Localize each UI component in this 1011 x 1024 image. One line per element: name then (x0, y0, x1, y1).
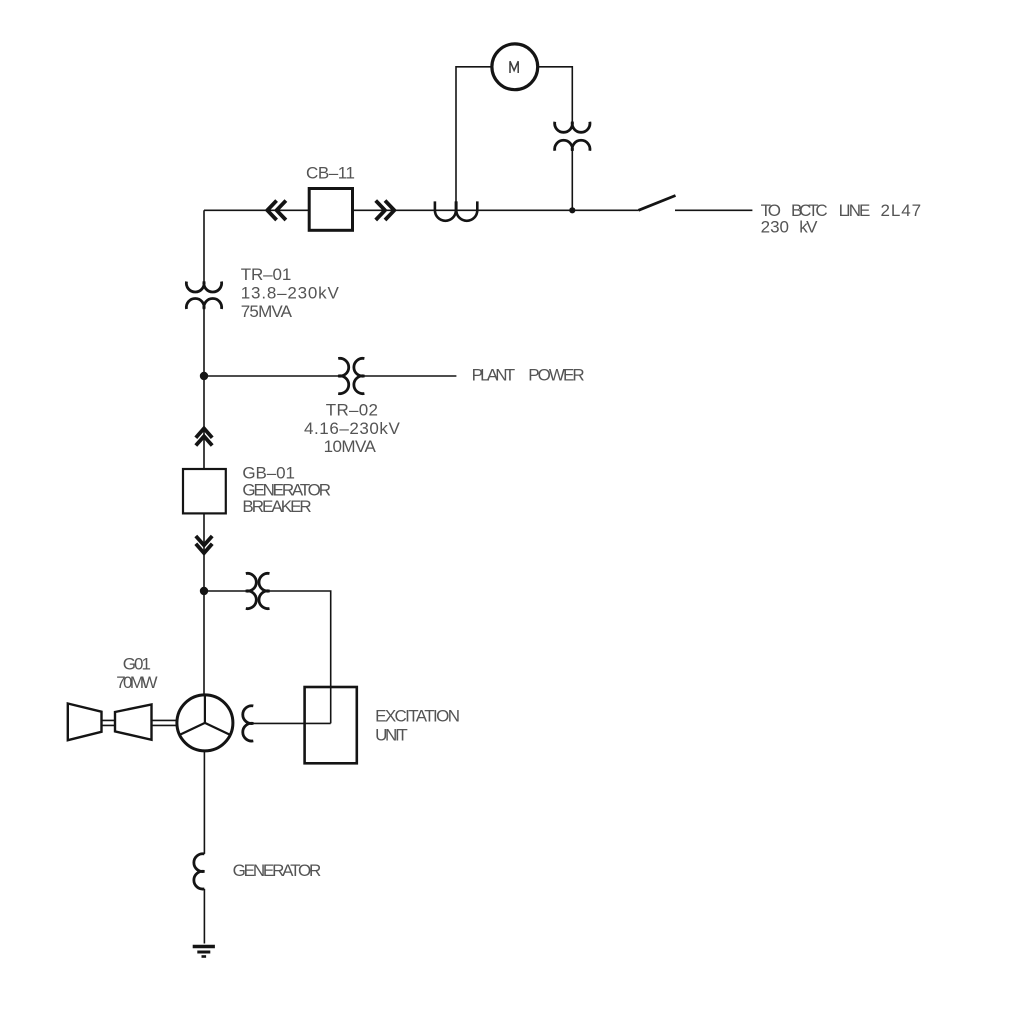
svg-text:GENERATOR: GENERATOR (233, 861, 322, 880)
svg-text:CB–11: CB–11 (306, 163, 355, 182)
svg-text:POWER: POWER (528, 366, 585, 385)
svg-text:LINE: LINE (839, 201, 871, 220)
svg-text:10MVA: 10MVA (324, 437, 377, 456)
svg-text:4.16–230kV: 4.16–230kV (304, 419, 400, 438)
svg-text:UNIT: UNIT (375, 725, 408, 744)
svg-text:PLANT: PLANT (472, 366, 515, 385)
svg-text:kV: kV (799, 217, 818, 236)
svg-text:TR–01: TR–01 (241, 265, 291, 284)
svg-text:2L47: 2L47 (881, 201, 922, 220)
svg-text:TR–02: TR–02 (326, 401, 378, 420)
svg-text:EXCITATION: EXCITATION (375, 707, 460, 726)
svg-text:75MVA: 75MVA (241, 302, 293, 321)
svg-text:13.8–230kV: 13.8–230kV (241, 284, 340, 303)
svg-text:G01: G01 (123, 654, 151, 673)
svg-text:BREAKER: BREAKER (242, 497, 311, 516)
svg-text:230: 230 (761, 217, 789, 236)
svg-text:70MW: 70MW (116, 673, 157, 692)
